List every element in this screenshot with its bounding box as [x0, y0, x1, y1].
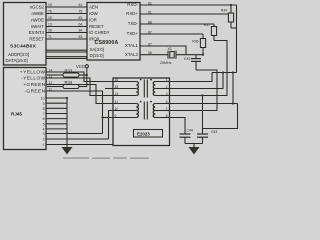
svg-text:61: 61	[79, 3, 83, 7]
svg-text:6: 6	[166, 100, 168, 104]
wire transformer pin10 to RJ45 pin2	[109, 111, 114, 140]
svg-text:DATA[15:0]: DATA[15:0]	[6, 58, 28, 63]
svg-text:3: 3	[166, 92, 168, 96]
svg-text:8: 8	[166, 114, 168, 118]
svg-text:ADDR[3:0]: ADDR[3:0]	[8, 52, 29, 57]
svg-text:+YELLOW: +YELLOW	[20, 70, 46, 76]
stub transformer pin15	[105, 88, 113, 90]
svg-text:nWBE: nWBE	[32, 11, 45, 16]
svg-text:TXD-: TXD-	[128, 21, 139, 26]
svg-text:63: 63	[79, 16, 83, 20]
wire -GREEN to transformer pin9	[46, 91, 103, 134]
pin 3 wire	[46, 133, 103, 135]
svg-text:XTAL1: XTAL1	[125, 43, 139, 48]
wire XTAL2	[140, 54, 168, 56]
pin 1 wire	[46, 145, 115, 146]
capacitor C44	[180, 133, 191, 135]
pin 2 wire	[46, 138, 109, 140]
pin 10	[46, 97, 67, 99]
svg-text:13: 13	[48, 23, 52, 27]
svg-text:10: 10	[115, 107, 119, 111]
svg-text:8: 8	[43, 107, 45, 111]
capacitor C43	[197, 133, 208, 135]
svg-text:76: 76	[48, 10, 52, 14]
ground symbol right	[189, 147, 200, 155]
svg-text:+GREEN: +GREEN	[23, 82, 45, 88]
pin 8	[46, 107, 67, 109]
svg-text:TXD+: TXD+	[127, 31, 139, 36]
svg-text:SA[3:0]: SA[3:0]	[90, 47, 104, 52]
transformer T1 E2023 box	[113, 78, 170, 146]
svg-text:2: 2	[166, 85, 168, 89]
node R33 junction	[86, 74, 88, 76]
winding polarity dot	[150, 79, 152, 81]
resistor R33	[47, 74, 63, 76]
wire to transformer pin6	[170, 73, 234, 104]
svg-text:71: 71	[48, 35, 52, 39]
wire +YELLOW to transformer pin16	[46, 72, 113, 82]
svg-text:R34: R34	[221, 9, 227, 13]
transformer lower core	[143, 102, 145, 120]
address bus ADDR[3:0] to SA[3:0]	[46, 49, 87, 51]
node RXD- / R34 junction	[230, 4, 232, 6]
node link junction	[222, 71, 224, 73]
svg-text:C44: C44	[187, 128, 193, 132]
svg-text:D[15:0]: D[15:0]	[90, 53, 104, 58]
pin 5	[46, 123, 67, 125]
svg-text:R37: R37	[204, 23, 210, 27]
wire C43 to pin3 column	[202, 96, 204, 129]
svg-text:2: 2	[43, 138, 45, 142]
svg-text:R36: R36	[192, 39, 198, 43]
winding polarity dot	[140, 101, 142, 103]
crystal X1 20MHz	[167, 51, 169, 59]
svg-text:XTAL2: XTAL2	[125, 52, 139, 57]
ethernet controller U2 CS8900A box	[87, 3, 140, 61]
svg-text:VCC: VCC	[76, 64, 85, 69]
winding polarity dot	[150, 101, 152, 103]
svg-text:10: 10	[41, 97, 45, 101]
svg-text:6: 6	[43, 117, 45, 121]
svg-text:3: 3	[43, 132, 45, 136]
svg-text:28: 28	[48, 29, 52, 33]
wire transformer pin8 to C44	[170, 118, 186, 135]
wire RXD+	[140, 13, 228, 15]
svg-text:53: 53	[79, 35, 83, 39]
resistor R34	[47, 86, 63, 88]
svg-text:4: 4	[43, 128, 45, 132]
svg-text:7: 7	[43, 112, 45, 116]
pin 4	[46, 128, 67, 130]
node R36 / crystal junction	[202, 54, 204, 56]
svg-text:IO CHRDY: IO CHRDY	[89, 30, 110, 35]
MCU U1 S3C44B0X box	[4, 3, 47, 66]
svg-text:RESET: RESET	[89, 24, 104, 29]
resistor R37	[213, 24, 215, 27]
wire to transformer pin1	[170, 73, 213, 82]
wire XTAL1	[140, 46, 186, 55]
svg-text:34: 34	[79, 29, 83, 33]
svg-text:nGCS2: nGCS2	[30, 4, 45, 9]
svg-text:1: 1	[43, 143, 45, 147]
wire nWAIT to RESET	[46, 26, 87, 28]
wire RESET to IRQ0	[46, 38, 87, 40]
transformer lower secondary winding	[153, 104, 155, 118]
transformer lower primary winding	[113, 103, 136, 105]
svg-text:C42: C42	[184, 57, 191, 61]
transformer upper primary winding	[113, 81, 136, 83]
svg-text:64: 64	[79, 23, 83, 27]
svg-text:C43: C43	[211, 130, 217, 134]
svg-text:X1: X1	[168, 47, 172, 51]
node on RXD- vertical	[232, 71, 234, 73]
wire nGCS2 to AEN	[46, 6, 87, 8]
svg-text:9: 9	[115, 114, 117, 118]
wire EXINT4 to IO CHRDY	[46, 32, 87, 34]
wire top-right link node	[212, 72, 237, 74]
svg-text:RJ45: RJ45	[11, 112, 22, 117]
wire TXD-	[140, 23, 214, 25]
transformer upper secondary winding	[153, 82, 155, 96]
caption smudge (cropped figure caption)	[63, 157, 149, 159]
svg-text:11: 11	[115, 100, 119, 104]
wire RXD- net	[140, 5, 237, 73]
svg-text:S3C44B0X: S3C44B0X	[10, 43, 37, 49]
wire R37 to transformer pin3	[170, 41, 228, 96]
svg-text:20MHz: 20MHz	[160, 61, 172, 65]
resistor R36	[202, 34, 204, 39]
svg-text:16: 16	[115, 78, 119, 82]
svg-text:14: 14	[115, 92, 119, 96]
data bus DATA[15:0] to D[15:0]	[46, 56, 87, 58]
svg-text:RXD-: RXD-	[127, 2, 138, 7]
resistor R34	[230, 5, 232, 13]
wire nWOE to IOR	[46, 19, 87, 21]
svg-text:IOR: IOR	[89, 17, 97, 22]
svg-text:nWAIT: nWAIT	[31, 24, 45, 29]
svg-text:15: 15	[48, 16, 52, 20]
transformer upper core	[143, 80, 145, 98]
wire nWBE to IOW	[46, 13, 87, 15]
pin 7	[46, 113, 67, 115]
svg-text:nWOE: nWOE	[31, 17, 44, 22]
pin 6	[46, 118, 67, 120]
svg-text:AEN: AEN	[89, 4, 98, 9]
svg-text:IOW: IOW	[89, 11, 99, 16]
svg-text:RESET: RESET	[29, 36, 44, 41]
svg-text:R33: R33	[65, 68, 73, 73]
wire -YELLOW to transformer pin14	[46, 78, 113, 96]
svg-text:EXINT4: EXINT4	[29, 30, 45, 35]
svg-text:5: 5	[43, 122, 45, 126]
svg-text:-YELLOW: -YELLOW	[21, 76, 45, 82]
winding polarity dot	[140, 79, 142, 81]
wire +GREEN to transformer pin11	[46, 85, 113, 104]
svg-text:15: 15	[115, 85, 119, 89]
svg-text:E2023: E2023	[137, 131, 150, 136]
svg-text:75: 75	[79, 10, 83, 14]
svg-text:9: 9	[43, 102, 45, 106]
pin 9	[46, 102, 67, 104]
wire pin9 tap	[103, 117, 114, 119]
capacitor C42	[195, 55, 197, 59]
wire C43 top node	[203, 104, 238, 135]
wire TXD+	[140, 33, 203, 35]
svg-text:19: 19	[48, 3, 52, 7]
svg-text:1: 1	[166, 78, 168, 82]
svg-text:-GREEN: -GREEN	[24, 89, 45, 95]
svg-text:7: 7	[166, 107, 168, 111]
wire C42 to transformer pin7	[170, 70, 218, 111]
svg-text:IRQ0: IRQ0	[89, 36, 100, 41]
wire to transformer pin2	[170, 73, 224, 89]
label E2023	[134, 130, 163, 138]
wire crystal to R36 node	[176, 54, 203, 56]
ground symbol left	[62, 147, 73, 155]
ground rail bottom right	[185, 143, 203, 145]
connector J1 RJ45 box	[4, 68, 47, 150]
svg-text:RXD+: RXD+	[126, 11, 138, 16]
ground rail vertical	[66, 98, 68, 147]
